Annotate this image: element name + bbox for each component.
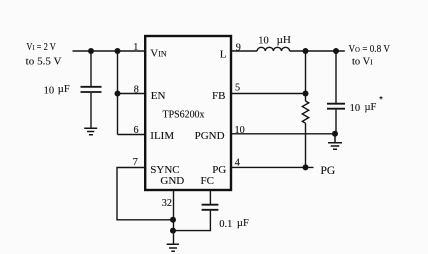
capacitor C1 bottom lead xyxy=(90,93,92,128)
ground symbol at PGND node xyxy=(328,134,342,149)
wire inductor to VO node xyxy=(290,50,345,52)
ground symbol bottom xyxy=(167,244,179,251)
node junction dot input rail / EN branch xyxy=(115,48,121,54)
svg-text:7: 7 xyxy=(133,157,138,168)
svg-text:FC: FC xyxy=(201,175,214,187)
svg-text:0.1µF: 0.1µF xyxy=(219,218,249,230)
svg-text:PGND: PGND xyxy=(195,130,225,142)
capacitor C2 bottom lead xyxy=(335,110,337,134)
svg-text:FB: FB xyxy=(212,90,225,102)
wire FB pin 5 to divider node xyxy=(231,93,306,95)
wire GND pin 32 lead down xyxy=(173,191,175,245)
svg-text:GND: GND xyxy=(160,175,184,187)
capacitor C2 10 uF output : top lead xyxy=(335,51,337,103)
inductor L1 10 uH xyxy=(257,47,289,51)
wire divider vertical upper xyxy=(305,51,307,101)
wire ILIM to pin 6 xyxy=(118,134,146,136)
capacitor C3 bottom lead and wire to GND node xyxy=(173,211,210,231)
node junction dot PG xyxy=(303,164,309,170)
svg-text:EN: EN xyxy=(151,90,166,102)
svg-text:PG: PG xyxy=(321,165,336,177)
wire PGND pin 10 to output ground node xyxy=(231,133,335,135)
svg-text:L: L xyxy=(220,48,227,60)
svg-text:TPS6200x: TPS6200x xyxy=(163,109,206,121)
IC U1 TPS6200x body xyxy=(145,36,231,190)
wire EN/ILIM branch vertical xyxy=(117,51,119,135)
svg-text:32: 32 xyxy=(162,198,172,209)
capacitor C3 plates xyxy=(202,205,219,210)
capacitor C3 0.1 uF FC : top lead xyxy=(209,191,211,205)
svg-text:8: 8 xyxy=(134,84,139,95)
node junction dot input rail / C1 xyxy=(88,48,94,54)
svg-text:VI = 2 V: VI = 2 V xyxy=(26,42,56,53)
node junction dot VO / C2 xyxy=(333,48,339,54)
svg-text:10µF: 10µF xyxy=(350,102,377,114)
node junction dot EN xyxy=(115,91,121,97)
wire pin 9 L to inductor xyxy=(231,50,257,52)
node junction dot PGND / C2 ground xyxy=(332,131,338,137)
node junction dot GND/FC xyxy=(170,228,176,234)
node junction dot inductor output / FB divider xyxy=(303,48,309,54)
wire resistor bottom to PG row xyxy=(305,123,307,167)
capacitor C1 plates xyxy=(81,87,102,92)
svg-text:PG: PG xyxy=(212,164,226,176)
svg-text:10µH: 10µH xyxy=(258,34,291,47)
svg-text:1: 1 xyxy=(133,42,138,53)
node junction dot FB xyxy=(303,91,309,97)
resistor R1 feedback xyxy=(302,101,308,123)
capacitor C1 10 uF input : top lead xyxy=(90,51,92,86)
svg-text:ILIM: ILIM xyxy=(150,130,174,142)
svg-text:9: 9 xyxy=(236,43,241,54)
svg-text:to 5.5 V: to 5.5 V xyxy=(26,57,62,68)
svg-text:10µF: 10µF xyxy=(44,84,70,96)
node junction dot GND/SYNC xyxy=(170,217,176,223)
wire EN to pin 8 xyxy=(118,93,146,95)
svg-text:to VI: to VI xyxy=(352,57,373,68)
svg-text:5: 5 xyxy=(235,83,240,94)
svg-text:4: 4 xyxy=(235,157,240,168)
wire PG pin 4 xyxy=(231,166,314,168)
ground symbol below C1 xyxy=(84,128,97,135)
wire input rail to pin 1 xyxy=(73,50,146,52)
wire SYNC pin 7 left and down to GND node xyxy=(117,168,172,220)
svg-text:VO = 0.8 V: VO = 0.8 V xyxy=(349,44,391,55)
capacitor C2 plates xyxy=(327,104,345,109)
svg-text:6: 6 xyxy=(134,125,139,136)
svg-text:10: 10 xyxy=(235,125,245,136)
footnote mark plus xyxy=(379,96,382,99)
svg-text:VIN: VIN xyxy=(150,48,167,60)
